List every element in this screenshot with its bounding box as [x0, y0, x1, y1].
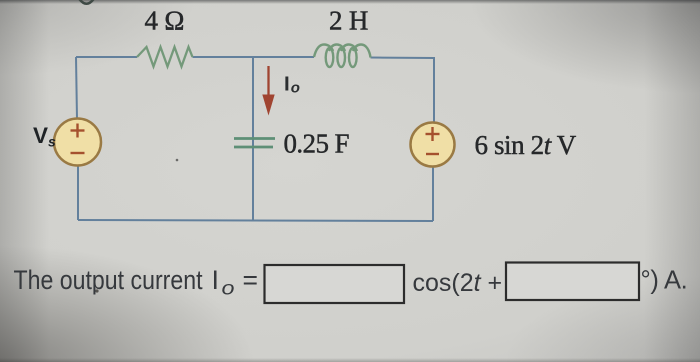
- wire bottom: [78, 220, 433, 221]
- svg-text:cos(2t +: cos(2t +: [413, 269, 503, 297]
- svg-text:Io: Io: [284, 73, 300, 97]
- stray dot: [176, 159, 179, 162]
- resistor R 4ohm zigzag: [137, 47, 193, 67]
- capacitor C 0.25F plates: [234, 139, 275, 148]
- svg-text:I: I: [212, 265, 220, 295]
- Vs minus sign: [71, 152, 85, 154]
- svg-text:6 sin 2t V: 6 sin 2t V: [475, 130, 577, 160]
- Vs plus sign: [71, 124, 85, 138]
- wire right vertical lower: [432, 167, 434, 222]
- wire top-middle segment: [193, 56, 315, 58]
- current arrow Io: [262, 66, 274, 116]
- right source plus sign: [426, 127, 440, 141]
- svg-text:The output current: The output current: [14, 265, 204, 295]
- wire left vertical lower: [77, 166, 79, 220]
- wire top-right segment: [371, 57, 435, 60]
- svg-text:o: o: [222, 279, 235, 300]
- svg-text:Vs: Vs: [33, 123, 56, 150]
- right source minus sign: [426, 153, 439, 155]
- svg-text:2 H: 2 H: [329, 6, 369, 36]
- wire right vertical upper: [433, 57, 435, 123]
- source 6sin2tV circle: [411, 123, 455, 167]
- source Vs circle: [54, 119, 101, 166]
- stray speck: [95, 289, 98, 292]
- answer box 1: [265, 265, 405, 303]
- answer box 2: [506, 263, 639, 301]
- svg-text:=: =: [243, 265, 258, 295]
- wire top-left segment: [76, 56, 137, 58]
- svg-text:°) A.: °) A.: [641, 267, 688, 295]
- inductor L 2H coil: [314, 45, 371, 68]
- stray glyph fragment top edge: [79, 0, 94, 4]
- wire left vertical upper: [76, 57, 77, 119]
- svg-text:0.25 F: 0.25 F: [284, 129, 350, 159]
- wire middle vertical: [252, 57, 254, 220]
- svg-text:4 Ω: 4 Ω: [145, 6, 185, 36]
